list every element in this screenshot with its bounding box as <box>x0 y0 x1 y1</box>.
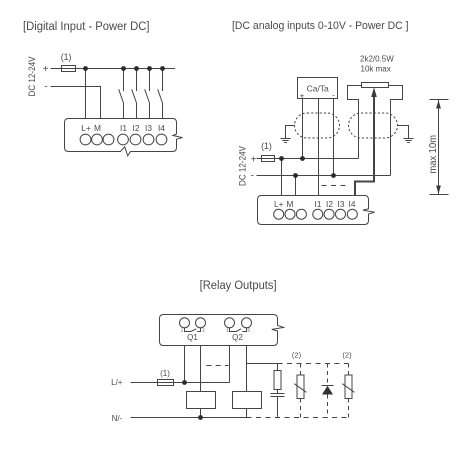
svg-text:I4: I4 <box>349 199 356 209</box>
svg-text:[DC analog inputs 0-10V - Powe: [DC analog inputs 0-10V - Power DC ] <box>232 20 409 32</box>
svg-text:(1): (1) <box>61 52 72 62</box>
svg-text:I1: I1 <box>120 123 127 133</box>
svg-text:1: 1 <box>181 328 184 333</box>
svg-text:I2: I2 <box>133 123 140 133</box>
svg-text:Ca/Ta: Ca/Ta <box>307 84 329 94</box>
svg-text:(2): (2) <box>292 351 302 360</box>
svg-text:max 10m: max 10m <box>428 135 439 174</box>
svg-text:(1): (1) <box>160 369 170 378</box>
svg-text:1: 1 <box>226 328 229 333</box>
svg-text:N/-: N/- <box>112 414 123 423</box>
svg-text:L+: L+ <box>274 199 284 209</box>
svg-text:(1): (1) <box>261 141 272 151</box>
svg-text:[Digital Input - Power DC]: [Digital Input - Power DC] <box>23 21 150 33</box>
svg-text:[Relay Outputs]: [Relay Outputs] <box>200 280 277 292</box>
svg-text:I2: I2 <box>326 199 333 209</box>
svg-text:I1: I1 <box>315 199 322 209</box>
svg-text:2k2/0.5W: 2k2/0.5W <box>360 55 394 64</box>
svg-text:-: - <box>332 90 335 100</box>
svg-text:Q1: Q1 <box>187 333 198 342</box>
svg-text:I3: I3 <box>145 123 152 133</box>
svg-text:M: M <box>287 199 294 209</box>
svg-text:10k max: 10k max <box>361 65 391 74</box>
svg-text:L+: L+ <box>81 123 91 133</box>
svg-text:+: + <box>251 155 257 166</box>
svg-text:2: 2 <box>247 328 250 333</box>
svg-text:M: M <box>94 123 101 133</box>
svg-text:DC 12-24V: DC 12-24V <box>238 145 249 186</box>
svg-text:-: - <box>251 171 254 182</box>
svg-text:2: 2 <box>202 328 205 333</box>
svg-text:Q2: Q2 <box>232 333 243 342</box>
svg-text:I4: I4 <box>158 123 165 133</box>
svg-text:DC 12-24V: DC 12-24V <box>27 56 38 97</box>
svg-text:+: + <box>43 64 49 75</box>
svg-text:L/+: L/+ <box>111 378 123 387</box>
svg-text:(2): (2) <box>342 351 352 360</box>
svg-text:I3: I3 <box>338 199 345 209</box>
svg-text:-: - <box>44 82 47 93</box>
svg-text:+: + <box>300 91 305 101</box>
